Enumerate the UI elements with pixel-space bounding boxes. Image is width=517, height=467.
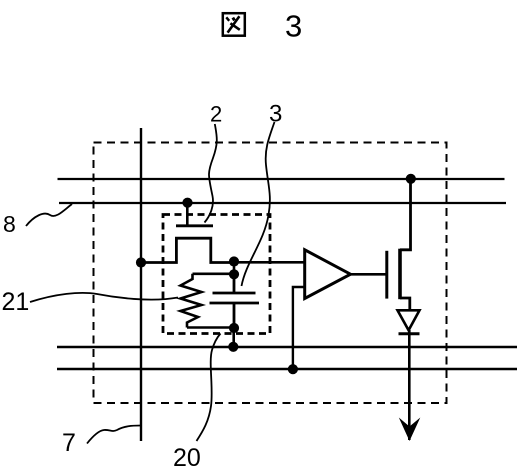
wire: node A to buffer input: [234, 261, 305, 264]
outer dashed box: [94, 143, 447, 404]
node: drain node on bus 1: [406, 174, 416, 184]
node: junction on bus 4: [288, 364, 298, 374]
op-amp buffer U1: [305, 250, 351, 299]
wire: buffer output to gate of Q1: [351, 273, 387, 276]
svg-text:7: 7: [62, 429, 76, 457]
node: gate node on bus 2: [182, 198, 192, 208]
leader line for label 20: [197, 334, 221, 442]
wire: upper supply line (bus 1): [58, 178, 505, 180]
output arrow head: [399, 418, 421, 442]
diode D1: [398, 310, 420, 330]
node: junction on bus 3: [228, 342, 238, 352]
node: drain node A: [229, 256, 239, 266]
transistor Q2 channel and source/drain wires: [141, 238, 234, 262]
leader line for label 2: [205, 124, 217, 223]
wire: lower line (bus 3): [57, 346, 517, 348]
svg-text:2: 2: [210, 102, 222, 127]
capacitor C3 top plate: [213, 275, 256, 294]
wire: lower line (bus 4): [57, 368, 517, 371]
svg-text:3: 3: [285, 9, 302, 44]
figure title glyph 図: [223, 13, 245, 36]
wire: output line down: [408, 330, 411, 440]
wire: vertical signal line 7: [140, 128, 142, 441]
wire: buffer lower input to bus 4: [293, 287, 305, 369]
wire: RC bottom node to bus 3: [232, 328, 235, 347]
svg-text:20: 20: [173, 444, 201, 467]
transistor Q2 gate bar: [176, 224, 213, 227]
svg-text:8: 8: [3, 211, 16, 237]
wire: upper supply line 8 (bus 2): [59, 202, 506, 204]
leader line for label 3: [242, 122, 275, 286]
leader line for label 7: [87, 426, 141, 444]
inner dashed box: [163, 215, 270, 334]
svg-text:21: 21: [2, 288, 30, 316]
transistor Q1 gate bar: [385, 251, 388, 299]
leader line for label 8: [26, 204, 72, 226]
wire: RC top rail: [193, 262, 235, 275]
wire: gate stem of transistor 2: [186, 203, 189, 225]
wire: RC bottom rail: [187, 326, 234, 329]
node 20: RC bottom node: [229, 323, 239, 333]
capacitor C3 bottom plate: [210, 303, 260, 328]
node: RC top node: [229, 269, 239, 279]
node: source node on line 7: [136, 257, 146, 267]
wire: Q1 source to diode: [400, 298, 410, 311]
svg-text:3: 3: [269, 101, 282, 128]
wire: Q1 drain to bus 1: [400, 179, 411, 250]
transistor Q1 channel bar: [398, 249, 402, 300]
leader line for label 21: [30, 293, 178, 302]
diode D1 cathode bar: [399, 332, 420, 335]
resistor R21: [181, 274, 202, 328]
